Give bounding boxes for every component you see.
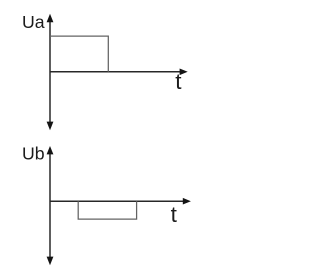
Ua axis right arrowhead [180, 69, 188, 76]
Ub horizontal axis [50, 200, 186, 202]
Ub vertical axis [49, 150, 51, 260]
Ua axis down arrowhead [47, 122, 54, 131]
Ub pulse waveform [78, 201, 136, 219]
Ua vertical axis [49, 18, 51, 125]
Ua axis up arrowhead [47, 14, 54, 22]
Ua pulse waveform [50, 36, 108, 72]
svg-text:Ua: Ua [22, 12, 45, 32]
Ua horizontal axis [50, 71, 183, 73]
Ub axis right arrowhead [183, 198, 191, 205]
svg-text:t: t [175, 69, 182, 94]
svg-text:t: t [171, 202, 178, 227]
Ub axis down arrowhead [47, 257, 54, 266]
svg-text:Ub: Ub [22, 144, 45, 164]
Ub axis up arrowhead [47, 146, 54, 154]
